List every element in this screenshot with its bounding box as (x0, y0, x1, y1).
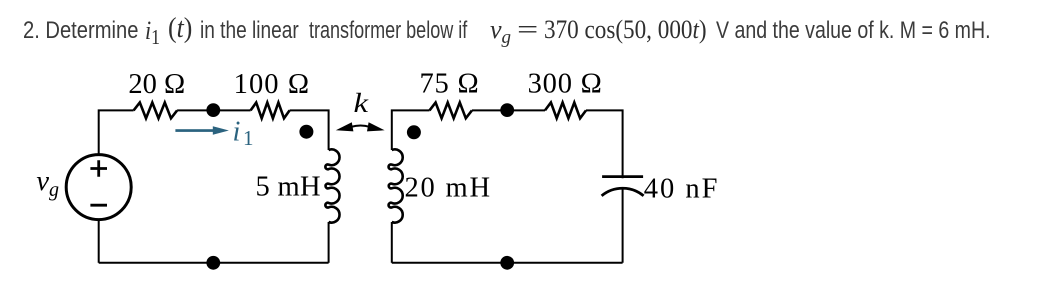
resistor 20 Ohm (134, 103, 178, 119)
source plus sign (90, 160, 107, 177)
svg-text:vg: vg (36, 166, 59, 201)
capacitor 40 nF top plate (602, 175, 643, 178)
node dot top-left mesh (206, 103, 220, 117)
source vg circle (66, 155, 131, 220)
polarity dot left coil (299, 125, 313, 139)
svg-text:100 Ω: 100 Ω (234, 69, 311, 100)
svg-text:k: k (354, 87, 369, 118)
wire left-mesh right lower (328, 222, 330, 263)
svg-text:20 Ω: 20 Ω (128, 69, 185, 100)
svg-text:300 Ω: 300 Ω (528, 68, 603, 99)
node dot bottom-left mesh (206, 256, 220, 270)
coupling arrow k (336, 122, 385, 131)
wire right-mesh left lower (391, 222, 393, 263)
svg-text:75 Ω: 75 Ω (420, 68, 480, 99)
wire top middle-right (472, 109, 545, 111)
source minus sign (90, 204, 107, 207)
svg-text:i: i (233, 116, 241, 147)
wire top middle-left (177, 109, 251, 111)
wire left-mesh bottom (99, 262, 329, 264)
wire left-mesh top-left corner (99, 110, 134, 154)
wire left-mesh left lower (98, 220, 100, 263)
resistor 75 Ohm (430, 103, 472, 119)
resistor 300 Ohm (545, 103, 586, 119)
wire right-mesh bottom (392, 262, 623, 264)
svg-text:1: 1 (243, 126, 254, 150)
wire right-mesh top-left corner (392, 110, 430, 150)
title text (23, 17, 138, 45)
svg-text:40 nF: 40 nF (644, 173, 720, 204)
polarity dot right coil (407, 125, 421, 139)
current arrow i1 (175, 126, 229, 135)
node dot top-right mesh (500, 103, 514, 117)
node dot bottom-right mesh (500, 256, 514, 270)
resistor 100 Ohm (251, 103, 290, 119)
capacitor 40 nF curved plate (602, 188, 644, 196)
wire right-mesh top-right corner (586, 110, 623, 178)
svg-text:5 mH: 5 mH (256, 172, 321, 203)
inductor 5 mH (325, 149, 339, 222)
wire left-mesh top-right corner (290, 110, 329, 150)
wire capacitor bottom lead (622, 188, 624, 263)
svg-text:20 mH: 20 mH (405, 173, 492, 204)
inductor 20 mH (389, 149, 403, 222)
